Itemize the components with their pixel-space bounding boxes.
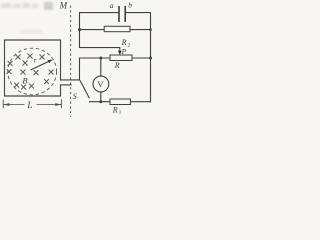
dimension line L with arrowheads (3, 104, 24, 106)
capacitor plate a (118, 6, 120, 22)
svg-text:V: V (97, 79, 104, 89)
svg-text:B: B (22, 76, 28, 86)
radius arrow (31, 61, 50, 70)
junction voltmeter bottom tap (99, 100, 102, 103)
wire: voltmeter bottom lead (100, 92, 102, 102)
svg-text:R: R (112, 105, 118, 114)
dimension ticks for L (2, 99, 4, 108)
svg-text:M: M (59, 0, 68, 10)
svg-text:r: r (34, 56, 37, 65)
resistor R1 (110, 99, 130, 105)
wire: right rail vertical (150, 12, 152, 102)
svg-text:L: L (26, 100, 32, 110)
resistor R2 (104, 26, 130, 31)
bottom rail right (130, 101, 151, 103)
svg-text:R: R (121, 38, 127, 47)
wire: R2 rail left (80, 29, 105, 31)
flux cross marks (7, 54, 53, 89)
rheostat R (110, 55, 132, 61)
wiper arrowhead P (118, 51, 122, 55)
wire: R2 rail right (130, 29, 151, 31)
wire: top rail to capacitor (80, 12, 119, 14)
wire: wiper feed rail (80, 48, 120, 52)
svg-text:b: b (128, 0, 132, 9)
wire: capacitor to right rail (126, 12, 151, 14)
wire: left vertical down to switch (79, 58, 81, 80)
wire: left vertical (cap loop to wiper rail) (79, 12, 81, 48)
wire: R rail left (80, 57, 111, 59)
wire: voltmeter top lead (100, 58, 102, 76)
junction at left vertical / R2 rail (78, 28, 81, 31)
bottom rail left (89, 101, 110, 103)
coil bottom lead (60, 84, 72, 86)
junction right rail / R rail (149, 57, 152, 60)
svg-text:S: S (73, 92, 77, 101)
junction right rail / R2 rail (149, 28, 152, 31)
faint print bleed-through smudges (1, 2, 53, 33)
capacitor plate b (124, 6, 126, 22)
field boundary dashed circle (8, 48, 57, 95)
junction voltmeter top tap (99, 57, 102, 60)
voltmeter V (93, 76, 109, 92)
switch S blade (80, 80, 89, 98)
square coil frame (right side has a gap with two lead stubs) (5, 40, 61, 96)
svg-text:a: a (110, 1, 114, 10)
coil top lead (60, 79, 80, 81)
svg-text:R: R (114, 61, 120, 70)
dashed reference line M (70, 6, 72, 118)
wire: R rail right (132, 57, 151, 59)
